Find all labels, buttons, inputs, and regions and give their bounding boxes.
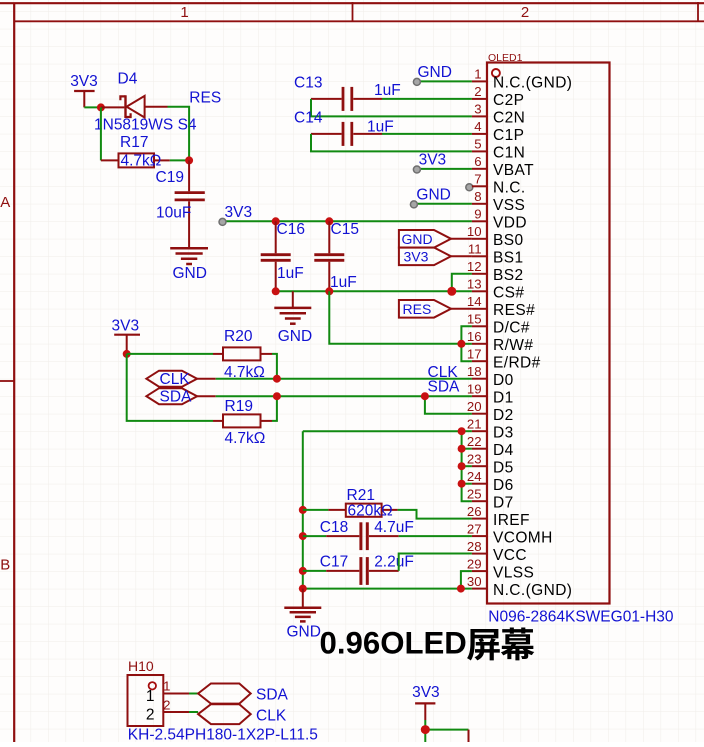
pin 29 VLSS [467, 556, 534, 581]
svg-text:A: A [0, 194, 10, 211]
junction C16 top [272, 217, 280, 225]
svg-text:C14: C14 [294, 110, 323, 127]
svg-text:1uF: 1uF [374, 82, 401, 99]
svg-text:12: 12 [467, 259, 482, 274]
pin 26 IREF [467, 504, 530, 529]
wire pin16 stub [461, 343, 472, 345]
H10 pin1 marker circle [149, 682, 156, 689]
svg-text:28: 28 [467, 539, 482, 554]
pin 15 D/C# [467, 312, 530, 337]
pin 8 VSS [472, 189, 525, 214]
svg-text:3V3: 3V3 [412, 684, 440, 701]
svg-text:C15: C15 [331, 221, 359, 238]
svg-text:15: 15 [467, 312, 482, 327]
svg-text:C16: C16 [277, 221, 305, 238]
junction pin24 [458, 480, 466, 488]
power flag 3V3 (top left) [70, 73, 98, 107]
svg-text:1uF: 1uF [277, 265, 304, 282]
svg-text:GND: GND [416, 186, 450, 203]
pin 23 D5 [467, 451, 514, 476]
wire C14 left loop to pin5 [311, 134, 472, 152]
net flag 3V3 at BS1 pin11 [399, 248, 472, 266]
pin 20 D2 [467, 399, 514, 424]
svg-text:29: 29 [467, 556, 482, 571]
capacitor C17 2.2uF [303, 554, 414, 585]
port arrow SDA (H10) [198, 684, 288, 704]
wire C14 right to pin4 [382, 133, 472, 135]
junction SDA R19 [273, 392, 281, 400]
svg-text:D4: D4 [493, 442, 514, 459]
svg-text:620kΩ: 620kΩ [348, 502, 393, 519]
junction R21 [299, 506, 307, 514]
wire pin19-pin20 jog [425, 396, 472, 414]
svg-text:N.C.: N.C. [493, 180, 526, 197]
svg-text:C17: C17 [320, 554, 348, 571]
wire GND rail to pin13 CS# [276, 290, 472, 292]
svg-text:D6: D6 [493, 477, 514, 494]
svg-text:3V3: 3V3 [404, 248, 429, 264]
pin 22 D4 [467, 434, 514, 459]
svg-text:VSS: VSS [493, 197, 525, 214]
pin 24 D6 [467, 469, 514, 494]
svg-text:24: 24 [467, 469, 482, 484]
svg-text:8: 8 [474, 189, 481, 204]
svg-text:20: 20 [467, 399, 482, 414]
row tick A|B [0, 380, 14, 382]
junction CLK R20 [273, 375, 281, 383]
ground symbol under C19 [170, 231, 208, 282]
svg-text:D3: D3 [493, 424, 514, 441]
svg-text:1uF: 1uF [330, 274, 357, 291]
svg-text:C1P: C1P [493, 127, 524, 144]
power flag 3V3 (bottom) [412, 684, 440, 720]
svg-text:D0: D0 [493, 372, 514, 389]
wire 3V3 to node [84, 106, 101, 108]
svg-text:18: 18 [467, 364, 482, 379]
svg-text:4: 4 [474, 119, 481, 134]
pin 10 BS0 [467, 224, 524, 249]
junction pin21 [458, 427, 466, 435]
svg-text:RES: RES [189, 89, 221, 106]
pin 12 BS2 [467, 259, 524, 284]
wire pin24 stub [462, 483, 472, 485]
svg-text:D7: D7 [493, 494, 514, 511]
wire C15 bottom to pins 15-17 [329, 291, 461, 344]
wire BS2 pin12 jog [452, 274, 472, 292]
junction 3V3 node [123, 350, 131, 358]
svg-text:3V3: 3V3 [419, 152, 447, 169]
junction 3V3 bottom [421, 725, 430, 734]
junction at pin13 [447, 287, 456, 296]
svg-text:30: 30 [467, 574, 482, 589]
junction C15 bottom [325, 287, 333, 295]
svg-text:13: 13 [467, 277, 482, 292]
svg-text:1: 1 [180, 4, 188, 21]
wire H10 pin1 [189, 693, 198, 695]
svg-text:27: 27 [467, 521, 482, 536]
wire H10 pin2 [189, 711, 198, 713]
junction C15 top [325, 217, 333, 225]
wire SDA to pin19 [216, 395, 472, 397]
wire R19 up to SDA [272, 396, 277, 421]
junction C17 [299, 567, 307, 575]
H10 pin 2 [146, 698, 189, 724]
sheet border left line [13, 3, 15, 742]
net port dot pin1 [413, 78, 420, 85]
svg-text:21: 21 [467, 416, 482, 431]
pin 25 D7 [467, 486, 514, 511]
net flag RES at RES# pin14 [399, 300, 472, 318]
pin 14 RES# [467, 294, 535, 319]
pin 16 R/W# [467, 329, 533, 354]
svg-text:BS2: BS2 [493, 267, 524, 284]
wire R20 to CLK line [272, 354, 277, 379]
junction node RES/R17/C19 [185, 156, 193, 164]
svg-text:GND: GND [402, 231, 433, 247]
svg-text:OLED1: OLED1 [488, 52, 523, 64]
svg-text:25: 25 [467, 486, 482, 501]
svg-text:RES#: RES# [493, 302, 535, 319]
wire CLK to pin18 [216, 378, 472, 380]
pin 4 C1P [472, 119, 524, 144]
svg-text:3V3: 3V3 [225, 204, 253, 221]
svg-text:16: 16 [467, 329, 482, 344]
svg-text:IREF: IREF [493, 512, 530, 529]
wire 3V3 down to R19 [127, 354, 213, 421]
wire C13 left loop to pin3 [311, 99, 472, 117]
junction pin23 [458, 462, 466, 470]
svg-text:3: 3 [474, 102, 481, 117]
svg-text:VCOMH: VCOMH [493, 529, 553, 546]
svg-text:D/C#: D/C# [493, 320, 530, 337]
svg-text:1N5819WS S4: 1N5819WS S4 [94, 117, 197, 134]
pin 3 C2N [472, 102, 525, 127]
net port dot pin8 [410, 201, 417, 208]
wire bottom GND to pin30 [303, 588, 472, 590]
svg-text:11: 11 [468, 242, 482, 257]
pin 9 VDD [472, 207, 527, 232]
wire VDD rail to pin9 [222, 220, 472, 222]
wire pin21 stub [462, 430, 472, 432]
svg-text:2: 2 [521, 4, 529, 21]
wire C17 to pin28 VCC [399, 554, 472, 571]
svg-text:N.C.(GND): N.C.(GND) [493, 582, 572, 599]
svg-text:3V3: 3V3 [70, 73, 98, 90]
svg-text:C19: C19 [156, 169, 184, 186]
svg-text:N.C.(GND): N.C.(GND) [493, 75, 572, 92]
wire to pin6 [416, 168, 472, 170]
wire 3V3 bottom node [425, 720, 468, 730]
svg-text:6: 6 [474, 154, 481, 169]
svg-text:CLK: CLK [160, 371, 191, 388]
svg-text:7: 7 [474, 172, 481, 187]
svg-text:N096-2864KSWEG01-H30: N096-2864KSWEG01-H30 [488, 609, 674, 626]
resistor R20 4.7k [127, 328, 272, 381]
port CLK double arrow [146, 371, 215, 388]
svg-text:R20: R20 [224, 328, 253, 345]
port SDA double arrow [146, 388, 215, 405]
svg-text:D4: D4 [118, 71, 138, 88]
svg-text:26: 26 [467, 504, 482, 519]
svg-text:D2: D2 [493, 407, 514, 424]
column tick 2|3 [697, 2, 699, 21]
pin 1 N.C.(GND) [472, 67, 572, 92]
svg-text:9: 9 [474, 207, 481, 222]
svg-text:B: B [0, 557, 10, 574]
wire vertical pins 15-17 [461, 326, 472, 361]
svg-text:SDA: SDA [256, 687, 289, 704]
svg-text:2: 2 [146, 706, 155, 723]
title 0.96OLED (chinese chars as paths) [320, 626, 535, 661]
svg-text:KH-2.54PH180-1X2P-L11.5: KH-2.54PH180-1X2P-L11.5 [128, 726, 318, 742]
svg-text:10: 10 [467, 224, 482, 239]
net flag GND at BS0 pin10 [399, 230, 472, 248]
wire 3V3 node down to R17 [100, 107, 102, 160]
pin 28 VCC [467, 539, 527, 564]
pin 17 E/RD# [467, 346, 541, 371]
svg-text:C1N: C1N [493, 145, 525, 162]
svg-text:4.7kΩ: 4.7kΩ [225, 430, 266, 447]
wire C13 right to pin2 [382, 98, 472, 100]
svg-text:0.96OLED: 0.96OLED [320, 626, 467, 661]
svg-text:RES: RES [403, 301, 432, 317]
wire R21 to pin26 IREF [398, 510, 472, 519]
junction C18 [299, 532, 307, 540]
capacitor C19 10uF [156, 160, 205, 231]
power flag 3V3 (R20 R19) [112, 318, 141, 354]
junction at pin16 [457, 340, 465, 348]
net port dot pin6 [413, 166, 420, 173]
wire to pin1 [416, 80, 472, 82]
wire left rail vertical [302, 431, 304, 588]
resistor R19 4.7k [213, 398, 272, 447]
svg-text:19: 19 [467, 381, 482, 396]
svg-text:GND: GND [287, 624, 321, 641]
svg-text:D1: D1 [493, 389, 514, 406]
diode D4 1N5819WS S4 (schottky) [94, 71, 197, 134]
wire R17 to C19 node [170, 159, 189, 161]
pin 5 C1N [472, 137, 525, 162]
wire pin29 jog [461, 571, 472, 589]
pin 2 C2P [472, 84, 524, 109]
svg-text:14: 14 [467, 294, 482, 309]
svg-text:1: 1 [474, 67, 481, 82]
svg-text:E/RD#: E/RD# [493, 354, 541, 371]
junction C16 bottom [272, 287, 280, 295]
capacitor C14 1uF [294, 110, 394, 146]
capacitor C16 1uF [261, 221, 305, 291]
svg-text:GND: GND [278, 328, 312, 345]
wire D3-D7 net top [303, 431, 472, 501]
net port dot VDD [219, 218, 226, 225]
svg-text:D5: D5 [493, 459, 514, 476]
svg-text:GND: GND [418, 64, 452, 81]
svg-text:4.7kΩ: 4.7kΩ [121, 153, 162, 170]
svg-text:SDA: SDA [160, 389, 193, 406]
capacitor C18 4.7uF [303, 519, 414, 550]
svg-text:2.2uF: 2.2uF [374, 554, 414, 571]
wire pin23 stub [462, 465, 472, 467]
wire to pin8 [414, 203, 472, 205]
ground symbol bottom [284, 589, 321, 641]
wire pin22 stub [462, 448, 472, 450]
svg-text:C13: C13 [294, 75, 322, 92]
svg-text:VLSS: VLSS [493, 564, 534, 581]
unconnected dot pin7 [466, 184, 473, 191]
svg-text:R19: R19 [225, 398, 253, 415]
svg-text:R/W#: R/W# [493, 337, 533, 354]
pin 30 N.C.(GND) [467, 574, 572, 599]
pin 27 VCOMH [467, 521, 553, 546]
svg-text:BS0: BS0 [493, 232, 524, 249]
wire C18 to pin27 VCOMH [399, 535, 472, 537]
wire D4 anode to RES corner [168, 107, 190, 161]
svg-text:VBAT: VBAT [493, 162, 534, 179]
connector OLED1 body [487, 52, 610, 604]
connector H10 body [128, 658, 164, 726]
svg-text:17: 17 [467, 346, 482, 361]
sheet border inner top line [14, 20, 704, 22]
svg-text:BS1: BS1 [493, 250, 524, 267]
capacitor C13 1uF [294, 75, 401, 111]
svg-text:10uF: 10uF [156, 205, 191, 222]
svg-text:H10: H10 [128, 658, 154, 674]
svg-text:4.7uF: 4.7uF [374, 519, 414, 536]
svg-text:5: 5 [474, 137, 481, 152]
pin 13 CS# [467, 277, 524, 302]
svg-text:C18: C18 [320, 519, 348, 536]
svg-text:23: 23 [467, 451, 482, 466]
pin 19 D1 [467, 381, 514, 406]
svg-text:C2P: C2P [493, 92, 524, 109]
junction SDA-D2 [421, 392, 429, 400]
svg-text:1: 1 [146, 688, 155, 705]
svg-text:VDD: VDD [493, 215, 527, 232]
svg-text:CLK: CLK [256, 707, 287, 724]
svg-text:VCC: VCC [493, 547, 527, 564]
column tick 1|2 [352, 2, 354, 21]
pin1 marker circle [492, 69, 500, 77]
wire below node [424, 730, 426, 742]
svg-text:SDA: SDA [428, 379, 461, 396]
svg-text:2: 2 [163, 698, 170, 713]
resistor R21 620k [303, 487, 398, 519]
pin 21 D3 [467, 416, 514, 441]
ground symbol mid [274, 291, 312, 345]
resistor R17 4.7k [101, 134, 170, 170]
svg-text:3V3: 3V3 [112, 318, 140, 335]
svg-text:GND: GND [173, 265, 207, 282]
svg-text:C2N: C2N [493, 110, 525, 127]
svg-text:1: 1 [163, 679, 170, 694]
pin 6 VBAT [472, 154, 534, 179]
svg-text:22: 22 [467, 434, 482, 449]
svg-text:CS#: CS# [493, 285, 524, 302]
pin 18 D0 [467, 364, 514, 389]
pin 7 N.C. [472, 172, 526, 197]
junction bottom rail [299, 585, 307, 593]
capacitor C15 1uF [314, 221, 359, 291]
component lead bottom right [468, 730, 470, 742]
port arrow CLK (H10) [198, 704, 287, 724]
junction node at D4 cathode [97, 103, 105, 111]
svg-text:2: 2 [474, 84, 481, 99]
junction pin29-30 [457, 585, 465, 593]
svg-text:R17: R17 [120, 134, 148, 151]
sheet border outer top line [0, 2, 704, 4]
pin 11 BS1 [468, 242, 524, 267]
junction pin22 [458, 445, 466, 453]
H10 pin 1 [146, 679, 189, 705]
